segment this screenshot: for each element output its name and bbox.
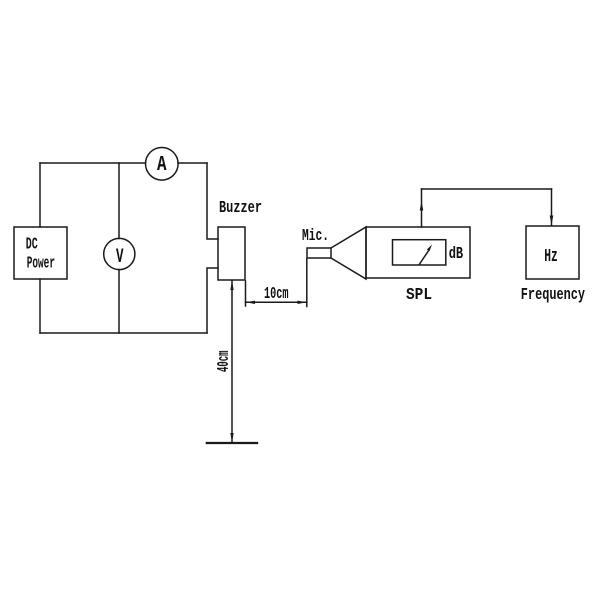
SPL meter body	[366, 227, 470, 278]
wire top left segment	[40, 162, 146, 164]
dB meter display	[393, 240, 446, 265]
ammeter A1 circle	[146, 148, 179, 181]
svg-text:Frequency: Frequency	[521, 285, 585, 304]
dimension 10cm line	[246, 301, 307, 303]
arrowhead 40cm up	[230, 281, 233, 290]
svg-text:dB: dB	[449, 244, 464, 263]
wire buzzer bottom terminal to bottom wire	[207, 268, 218, 333]
wire left branch lower	[39, 279, 41, 333]
arrowhead SPL output up	[420, 201, 424, 211]
buzzer BZ1 box	[218, 227, 245, 280]
wire left branch upper	[39, 163, 41, 227]
DC power supply box	[14, 227, 67, 279]
arrowhead 10cm left	[246, 301, 255, 304]
svg-text:Power: Power	[27, 254, 55, 273]
dimension 40cm line	[231, 281, 233, 442]
svg-text:Hz: Hz	[544, 246, 558, 267]
microphone stub	[307, 248, 331, 258]
svg-text:10cm: 10cm	[264, 284, 289, 303]
frequency counter box	[526, 226, 579, 279]
wire right branch to buzzer top terminal	[207, 163, 218, 239]
svg-text:DC: DC	[26, 234, 38, 253]
SPL meter horn cone	[331, 227, 366, 279]
svg-text:Mic.: Mic.	[302, 226, 329, 245]
wire SPL to top connector	[421, 189, 423, 227]
arrowhead 40cm down	[230, 433, 233, 442]
dimension 10cm extension line left	[245, 281, 247, 306]
wire middle branch lower	[118, 270, 120, 334]
dimension 10cm extension line right	[306, 259, 308, 307]
svg-text:V: V	[116, 246, 124, 269]
wire top right segment	[178, 162, 207, 164]
arrowhead 10cm right	[298, 301, 307, 304]
floor line	[206, 442, 259, 444]
svg-text:40cm: 40cm	[214, 350, 233, 372]
wire top connector horizontal	[422, 188, 552, 190]
svg-text:A: A	[157, 154, 167, 177]
arrowhead into frequency counter	[550, 216, 554, 226]
dB meter needle	[419, 250, 429, 265]
svg-text:Buzzer: Buzzer	[219, 198, 262, 217]
svg-text:SPL: SPL	[406, 285, 432, 304]
wire bottom	[40, 332, 207, 334]
voltmeter V1 circle	[104, 238, 135, 269]
arrowhead needle tip	[427, 245, 432, 252]
wire connector down to frequency counter	[551, 189, 553, 225]
wire middle branch upper	[118, 163, 120, 239]
